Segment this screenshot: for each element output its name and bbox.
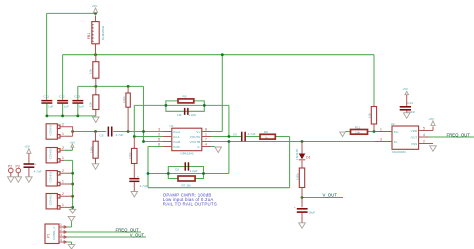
wire jack1 signal net (73, 131, 163, 133)
wire bias node (78, 85, 144, 87)
jack J1 (46, 122, 73, 139)
svg-text:4.7uF: 4.7uF (140, 184, 148, 188)
svg-text:FREQ_OUT: FREQ_OUT (447, 132, 471, 137)
svg-text:1: 1 (62, 132, 64, 136)
svg-text:10k: 10k (89, 69, 93, 74)
wire top-left horizontal net +5V (47, 12, 96, 14)
svg-text:IN-A: IN-A (173, 135, 180, 139)
svg-text:2: 2 (62, 192, 64, 196)
wire V+ to rail (211, 55, 222, 132)
capacitor C10 integrator (129, 174, 147, 192)
wire bias vertical to IN+ pins (144, 86, 163, 141)
svg-text:BLM18AG: BLM18AG (101, 25, 105, 40)
capacitor C14 (400, 101, 416, 114)
jack J2 (46, 146, 64, 163)
svg-text:4: 4 (60, 238, 62, 242)
op-amp U1 (158, 124, 211, 155)
svg-text:VSS: VSS (411, 142, 417, 146)
svg-text:D1: D1 (306, 155, 310, 159)
supply +5V top (92, 4, 99, 22)
svg-text:3: 3 (380, 138, 382, 142)
ground at U2 VSS (430, 146, 437, 152)
wire +5V rail after FB1 (63, 54, 374, 56)
capacitor C9 output A (233, 132, 256, 142)
ground under R6 (92, 164, 99, 170)
capacitor C12 (57, 95, 69, 109)
svg-text:1k: 1k (265, 136, 269, 140)
comparator U2 (375, 122, 433, 154)
svg-text:1M: 1M (177, 113, 182, 117)
supply +5V over C14 (402, 87, 409, 106)
capacitor C13 (72, 95, 84, 109)
svg-text:1.2pF: 1.2pF (190, 169, 198, 173)
capacitor C5 (24, 162, 42, 177)
wire jack2 pin nets (64, 150, 72, 160)
svg-text:C6: C6 (100, 133, 104, 137)
wire vertical to C11 (46, 13, 48, 100)
svg-text:P3: P3 (16, 164, 20, 168)
svg-text:100k: 100k (122, 96, 126, 103)
wire VOUTA net (211, 137, 290, 188)
svg-text:IN+A: IN+A (173, 130, 181, 134)
svg-text:2: 2 (60, 228, 62, 232)
ground under C10 (131, 192, 138, 198)
wire top feedback net (134, 104, 229, 106)
resistor R5 feedback top (177, 94, 196, 117)
svg-text:2: 2 (423, 140, 425, 144)
svg-text:C8: C8 (175, 168, 179, 172)
svg-text:5: 5 (423, 127, 425, 131)
svg-text:2: 2 (158, 133, 160, 137)
svg-text:+5V: +5V (92, 4, 99, 8)
svg-text:1: 1 (62, 180, 64, 184)
svg-text:U1: U1 (170, 124, 174, 128)
test point P3 (15, 164, 22, 182)
svg-text:5: 5 (158, 138, 160, 142)
resistor R12 integrator input (128, 137, 137, 178)
ground above P1 pin1 (68, 216, 75, 221)
svg-text:1uF: 1uF (64, 104, 69, 108)
wire VOUTB riser to bottom feedback (228, 142, 230, 174)
svg-text:CONNJ: CONNJ (49, 148, 53, 159)
svg-text:+: + (35, 162, 37, 166)
wire vertical to C12 (62, 55, 64, 100)
jack J4 (46, 192, 73, 209)
svg-text:IN+B: IN+B (173, 140, 180, 144)
ground at U1 V- (215, 147, 222, 153)
svg-text:100k: 100k (89, 146, 93, 153)
svg-text:C11: C11 (44, 95, 50, 99)
svg-text:FB1: FB1 (87, 33, 91, 39)
wire U2 OUT net (429, 136, 474, 138)
svg-text:100k: 100k (128, 152, 132, 159)
svg-text:10k: 10k (89, 102, 93, 107)
svg-text:1: 1 (60, 223, 62, 227)
resistor R10 pullup (368, 107, 377, 132)
wire R10 pullup from rail (373, 55, 375, 107)
resistor R6 to ground (89, 132, 98, 164)
svg-text:IN+: IN+ (394, 130, 399, 134)
svg-text:1: 1 (380, 128, 382, 132)
svg-text:CONN_4: CONN_4 (52, 227, 56, 240)
supply near jack2 (70, 140, 77, 147)
wire IN-A feedback riser (134, 105, 162, 136)
svg-text:10k: 10k (368, 113, 372, 118)
svg-text:V-: V- (197, 145, 200, 149)
svg-text:100k: 100k (295, 173, 299, 180)
ground under C5 (26, 177, 33, 183)
capacitor C11 (41, 95, 53, 109)
connector P1 (45, 223, 67, 244)
wire top feedback cap loop (166, 105, 204, 111)
wire VOUTA riser to feedback (228, 105, 230, 136)
svg-text:4.7uF: 4.7uF (34, 170, 42, 174)
svg-text:2: 2 (62, 122, 64, 126)
resistor R11 (351, 125, 368, 134)
svg-text:VOUTA: VOUTA (190, 135, 201, 139)
svg-text:CONNJ: CONNJ (49, 171, 53, 182)
svg-text:+: + (137, 174, 139, 178)
svg-text:1.2pF: 1.2pF (188, 113, 196, 117)
wire jack pin wraps (72, 207, 74, 209)
ferrite bead FB1 (87, 22, 105, 55)
wire comparator IN+ net (345, 131, 375, 133)
svg-text:U2: U2 (391, 122, 395, 126)
resistor R3 lower divider (89, 86, 99, 116)
resistor R9 series 1k (260, 130, 275, 140)
capacitor C8 feedback bottom (185, 162, 190, 170)
ground left of R11 (340, 132, 345, 137)
wire bottom feedback net (148, 173, 229, 175)
svg-text:1uF: 1uF (48, 104, 53, 108)
svg-text:VDD: VDD (411, 129, 418, 133)
svg-text:4.7uF: 4.7uF (116, 133, 124, 137)
wire bottom feedback cap loop (168, 167, 203, 174)
svg-text:1: 1 (62, 203, 64, 207)
svg-text:10k: 10k (355, 131, 360, 135)
svg-text:3: 3 (158, 128, 160, 132)
ground under jack bus (69, 209, 75, 213)
svg-text:4.7uF: 4.7uF (248, 132, 256, 136)
ground under C15 (299, 223, 306, 229)
svg-text:+: + (294, 205, 296, 209)
svg-text:MAX9031: MAX9031 (392, 150, 406, 154)
svg-text:1uF: 1uF (79, 104, 84, 108)
blue note text (163, 193, 217, 207)
capacitor C7 feedback top (184, 108, 189, 115)
svg-text:1: 1 (205, 133, 207, 137)
wire P1 pin nets (66, 221, 146, 244)
svg-text:C12: C12 (59, 95, 65, 99)
ground under divider (93, 117, 100, 123)
svg-text:IN-: IN- (394, 140, 398, 144)
svg-text:RAIL TO RAIL OUTPUTS: RAIL TO RAIL OUTPUTS (163, 202, 217, 207)
diode D1 (295, 142, 311, 169)
svg-text:CONNJ: CONNJ (49, 194, 53, 205)
supply +5V at U2 VDD (428, 117, 435, 126)
svg-text:V_OUT: V_OUT (323, 192, 338, 197)
svg-text:6: 6 (158, 143, 160, 147)
wire IN-B loop (148, 147, 290, 188)
svg-text:+5V: +5V (428, 117, 435, 121)
capacitor C6 input (100, 127, 124, 138)
svg-text:OUT: OUT (411, 135, 418, 139)
resistor R7 feedback bottom (175, 168, 198, 188)
svg-text:IN-B: IN-B (173, 145, 179, 149)
wire cap bottoms to ground (47, 104, 96, 116)
svg-text:R11: R11 (355, 125, 361, 129)
svg-text:7: 7 (205, 138, 207, 142)
svg-text:10uF: 10uF (308, 211, 315, 215)
svg-text:CONNJ: CONNJ (49, 124, 53, 135)
resistor R13 (295, 168, 304, 207)
svg-text:2: 2 (62, 169, 64, 173)
wire jack2 supply stub (71, 147, 73, 150)
svg-text:P1: P1 (47, 233, 51, 237)
svg-text:8: 8 (205, 128, 207, 132)
svg-text:4: 4 (205, 143, 207, 147)
svg-text:V_OUT: V_OUT (130, 232, 145, 237)
svg-text:+5V: +5V (24, 145, 31, 149)
svg-text:OPA2343: OPA2343 (180, 152, 193, 156)
test point P2 (8, 164, 15, 182)
svg-text:R9: R9 (264, 130, 268, 134)
resistor R2 upper divider (89, 55, 99, 87)
svg-text:+5V: +5V (70, 140, 77, 144)
jack J3 (46, 169, 73, 186)
svg-text:1N4148: 1N4148 (295, 149, 299, 160)
svg-text:R5: R5 (183, 94, 187, 98)
svg-text:2: 2 (62, 146, 64, 150)
svg-text:C14: C14 (407, 101, 413, 105)
wire V- stub (211, 146, 215, 148)
svg-text:V+: V+ (196, 130, 200, 134)
svg-text:VOUTB: VOUTB (190, 140, 201, 144)
wire bottom feedback R jogs (168, 174, 203, 179)
svg-text:1: 1 (62, 156, 64, 160)
ground under C14 (403, 113, 410, 119)
svg-text:+5V: +5V (402, 87, 409, 91)
svg-text:R7 1M: R7 1M (182, 184, 192, 188)
resistor R4 bias (122, 86, 130, 131)
wire jack ground bus (72, 160, 74, 207)
svg-text:4: 4 (423, 133, 425, 137)
svg-text:C9: C9 (233, 133, 237, 137)
ground below P1 pin4 (68, 245, 75, 249)
wire top feedback R jogs (166, 101, 204, 106)
capacitor C15 V_OUT (294, 205, 315, 223)
wire V_OUT net (302, 197, 343, 199)
wire vertical to C13 (77, 86, 79, 100)
svg-text:C13: C13 (74, 95, 80, 99)
supply left +5V (24, 145, 31, 164)
wire VOUTB long net (211, 141, 375, 143)
svg-text:3: 3 (60, 233, 62, 237)
svg-text:P2: P2 (8, 164, 12, 168)
